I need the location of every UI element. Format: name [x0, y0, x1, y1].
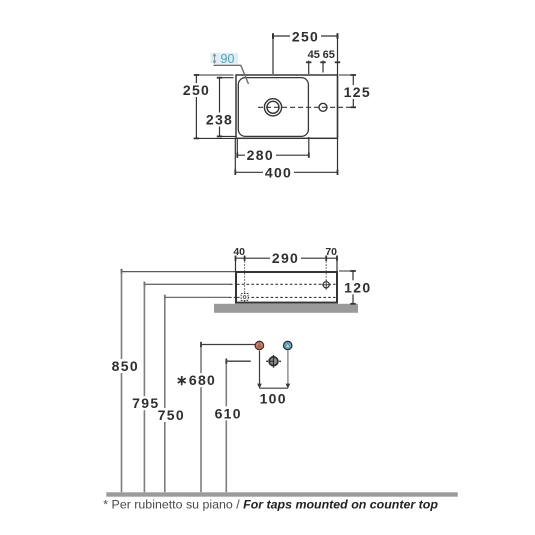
svg-text:70: 70 — [325, 246, 337, 258]
label 40 — [233, 246, 245, 258]
svg-text:* Per rubinetto su piano / For: * Per rubinetto su piano / For taps moun… — [103, 498, 438, 512]
counter top slab — [214, 304, 358, 313]
drain dotted vertical in side view — [244, 258, 246, 301]
label 610 — [213, 405, 243, 421]
90 label — [221, 52, 235, 66]
dim 250 top: line — [273, 33, 338, 74]
dim 290 with 40 / 70 — [236, 250, 338, 272]
svg-text:850: 850 — [112, 358, 139, 374]
label *680 — [176, 372, 216, 388]
label 750 — [156, 407, 186, 423]
svg-text:65: 65 — [323, 49, 335, 61]
45/65 extension stubs and ticks — [306, 61, 340, 75]
left extension lines (top edge / inner top edge) — [194, 75, 236, 138]
svg-text:238: 238 — [206, 112, 233, 128]
vertical line 795 — [143, 284, 145, 492]
label 70 — [325, 246, 337, 258]
svg-text:125: 125 — [344, 84, 371, 100]
dim 125 right — [339, 75, 373, 107]
dim 400 — [235, 139, 337, 180]
dim 120 — [339, 271, 373, 304]
footnote caption — [103, 498, 438, 512]
waste drain symbol — [266, 355, 281, 368]
side view inner dashed lines — [237, 284, 336, 297]
label 45 — [308, 49, 320, 61]
vertical line 850 — [121, 272, 123, 493]
cold water connection (blue) — [284, 341, 292, 349]
basin side profile — [236, 272, 337, 303]
dim 280 — [237, 137, 308, 163]
hot water connection (red) — [255, 341, 263, 349]
svg-text:610: 610 — [215, 405, 242, 421]
reference line 795 (to tap centerline) — [144, 282, 335, 287]
svg-text:100: 100 — [260, 390, 287, 406]
svg-text:120: 120 — [344, 279, 371, 295]
svg-text:250: 250 — [292, 29, 319, 45]
svg-text:90: 90 — [221, 52, 235, 66]
tap dotted vertical in side view — [325, 258, 327, 290]
90 leader line — [214, 65, 249, 84]
tap hole — [319, 103, 327, 111]
90 up-down arrow glyph — [213, 53, 217, 64]
90 radius callout highlight — [211, 53, 239, 64]
label 795 — [131, 395, 161, 411]
dim 238 — [204, 78, 235, 137]
reference line 750 (to drain line) — [165, 295, 336, 300]
dim 250 top: label — [290, 29, 321, 45]
label 65 — [323, 49, 335, 61]
svg-text:795: 795 — [132, 395, 159, 411]
basin inner bowl — [238, 78, 308, 137]
svg-text:400: 400 — [265, 164, 292, 180]
dim 250 left — [181, 75, 212, 138]
basin outer rim — [236, 75, 338, 138]
vertical line 610 with horizontal to drain — [226, 359, 251, 493]
dim 100 between taps — [257, 351, 290, 407]
vertical line 680 with horizontal to hot tap — [201, 342, 255, 493]
tap hole symbol (side view) — [322, 280, 331, 289]
svg-text:40: 40 — [233, 246, 245, 258]
svg-text:750: 750 — [158, 407, 185, 423]
reference line 850 (to top edge) — [122, 269, 237, 274]
svg-text:280: 280 — [247, 147, 274, 163]
svg-text:45: 45 — [308, 49, 320, 61]
right vertical extension (basin right edge up to 250 dim and down to 400 dim) — [337, 36, 339, 172]
svg-text:290: 290 — [272, 250, 299, 266]
svg-text:∗680: ∗680 — [176, 372, 216, 388]
centerline dashed through bowl — [258, 106, 355, 108]
drain square symbol (side view) — [241, 294, 248, 301]
svg-text:250: 250 — [183, 82, 210, 98]
floor bar — [106, 492, 458, 496]
drain hole — [264, 99, 281, 116]
vertical line 750 — [164, 297, 166, 492]
label 850 — [110, 358, 140, 374]
